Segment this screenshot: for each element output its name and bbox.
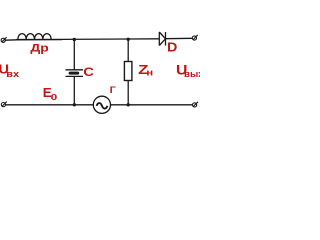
svg-text:0: 0	[51, 94, 58, 103]
svg-text:D: D	[167, 40, 177, 54]
svg-text:н: н	[146, 69, 153, 79]
svg-text:вх: вх	[6, 70, 19, 80]
svg-text:вых: вых	[184, 69, 200, 79]
svg-text:C: C	[83, 65, 94, 79]
svg-text:Др: Др	[30, 42, 49, 54]
svg-text:Г: Г	[110, 86, 116, 96]
